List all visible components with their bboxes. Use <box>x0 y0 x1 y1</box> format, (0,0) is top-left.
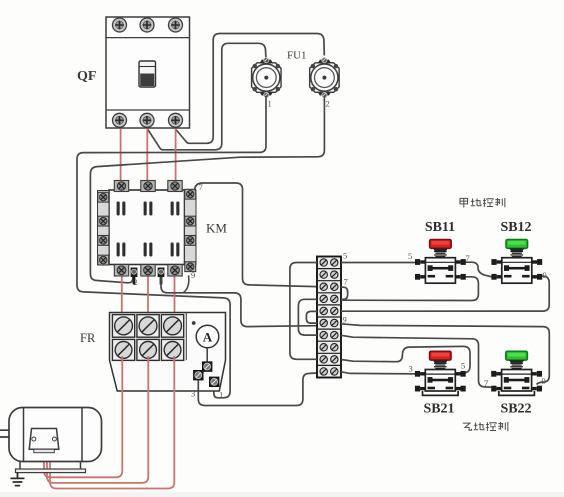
svg-text:5: 5 <box>408 251 412 261</box>
red wire L2 QF to KM <box>146 129 148 182</box>
svg-text:FU1: FU1 <box>287 50 307 62</box>
jumper strip row1 to row9 <box>290 263 317 360</box>
wire SB11 terminal 7 to SB12 <box>464 262 493 277</box>
svg-text:9: 9 <box>543 270 547 280</box>
wire KM coil/aux contact 9 to terminal strip row 6 <box>161 277 317 327</box>
svg-text:FR: FR <box>80 331 96 345</box>
svg-text:1: 1 <box>268 99 272 109</box>
svg-text:KM: KM <box>206 221 227 236</box>
ammeter dial A <box>196 325 219 361</box>
red wire L1 QF to KM <box>120 129 122 182</box>
wire strip row9 to SB21 terminal 5 <box>341 346 470 373</box>
wire KM aux contact 7 to terminal strip row 3 <box>195 183 318 287</box>
ground symbol <box>11 473 25 486</box>
push button SB22 (green start) <box>491 351 542 395</box>
svg-text:5: 5 <box>343 251 347 261</box>
svg-text:7: 7 <box>344 277 348 287</box>
FR aux terminal mid <box>202 362 212 372</box>
svg-text:7: 7 <box>484 378 488 388</box>
svg-text:SB12: SB12 <box>500 220 531 235</box>
svg-text:SB22: SB22 <box>500 402 531 417</box>
fuse FU1-2 <box>310 58 340 109</box>
jumper strip row4 to row7 <box>298 299 317 335</box>
red motor lead W <box>50 356 174 489</box>
label yidi kongzhi (location B control) <box>463 422 508 431</box>
push button SB21 (red stop) <box>415 351 466 395</box>
wire strip row10 to SB21 terminal 3 <box>341 372 417 374</box>
terminal strip XT <box>317 257 341 378</box>
jumper strip row3 to row4 right <box>341 287 348 299</box>
wire fuse1 output (1) around KM to FR terminal 1 <box>77 96 266 398</box>
svg-text:SB11: SB11 <box>425 220 455 235</box>
circuit breaker QF <box>106 17 190 128</box>
jumper strip row5 to row6 <box>306 311 317 323</box>
svg-text:3: 3 <box>191 389 195 399</box>
wire strip row6 to SB22 terminal 9 <box>341 324 549 385</box>
wire fuse2 output (2) around KM to coil terminal 2 <box>90 96 324 283</box>
FR aux terminal 1 <box>209 377 219 387</box>
push button SB12 (green start) <box>491 240 542 284</box>
svg-text:7: 7 <box>466 253 470 263</box>
wire SB12 terminal 9 to strip row5 <box>341 276 549 311</box>
svg-text:5: 5 <box>461 361 465 371</box>
red wire KM to FR phase 2 <box>147 277 149 315</box>
FR aux terminal 3 <box>194 370 204 380</box>
push button SB11 (red stop) <box>415 240 466 284</box>
fuse FU1-1 <box>252 58 281 109</box>
wire FR contact 3 to terminal strip row 10 <box>198 373 317 406</box>
contactor KM <box>98 181 197 285</box>
wire QF right pole to FU1 fuse 2 <box>176 34 325 144</box>
thermal relay FR <box>110 313 226 392</box>
wire SB11 lower terminal to strip row4 <box>341 277 478 301</box>
wire KM aux 9 joint <box>183 276 189 293</box>
svg-text:9: 9 <box>191 270 195 280</box>
red wire KM to FR phase 3 <box>174 277 176 315</box>
red motor lead V <box>47 356 148 483</box>
svg-text:SB21: SB21 <box>423 402 454 417</box>
svg-text:A: A <box>203 330 213 345</box>
svg-text:9: 9 <box>542 376 546 386</box>
svg-text:QF: QF <box>77 69 96 84</box>
red motor lead U <box>44 356 122 477</box>
red wire L3 QF to KM <box>175 129 177 182</box>
svg-text:2: 2 <box>326 99 330 109</box>
wire strip row1 to SB11 terminal 5 <box>341 262 417 264</box>
wire QF middle pole to FU1 fuse 1 <box>148 43 267 150</box>
svg-text:3: 3 <box>409 364 413 374</box>
svg-text:9: 9 <box>343 315 347 325</box>
wire strip row7 to SB22 terminal 7 <box>341 335 492 387</box>
red wire KM to FR phase 1 <box>121 277 123 315</box>
label jiadi kongzhi (location A control) <box>460 198 505 208</box>
svg-text:2: 2 <box>134 277 138 287</box>
svg-text:1: 1 <box>219 390 223 400</box>
motor M <box>0 408 102 473</box>
